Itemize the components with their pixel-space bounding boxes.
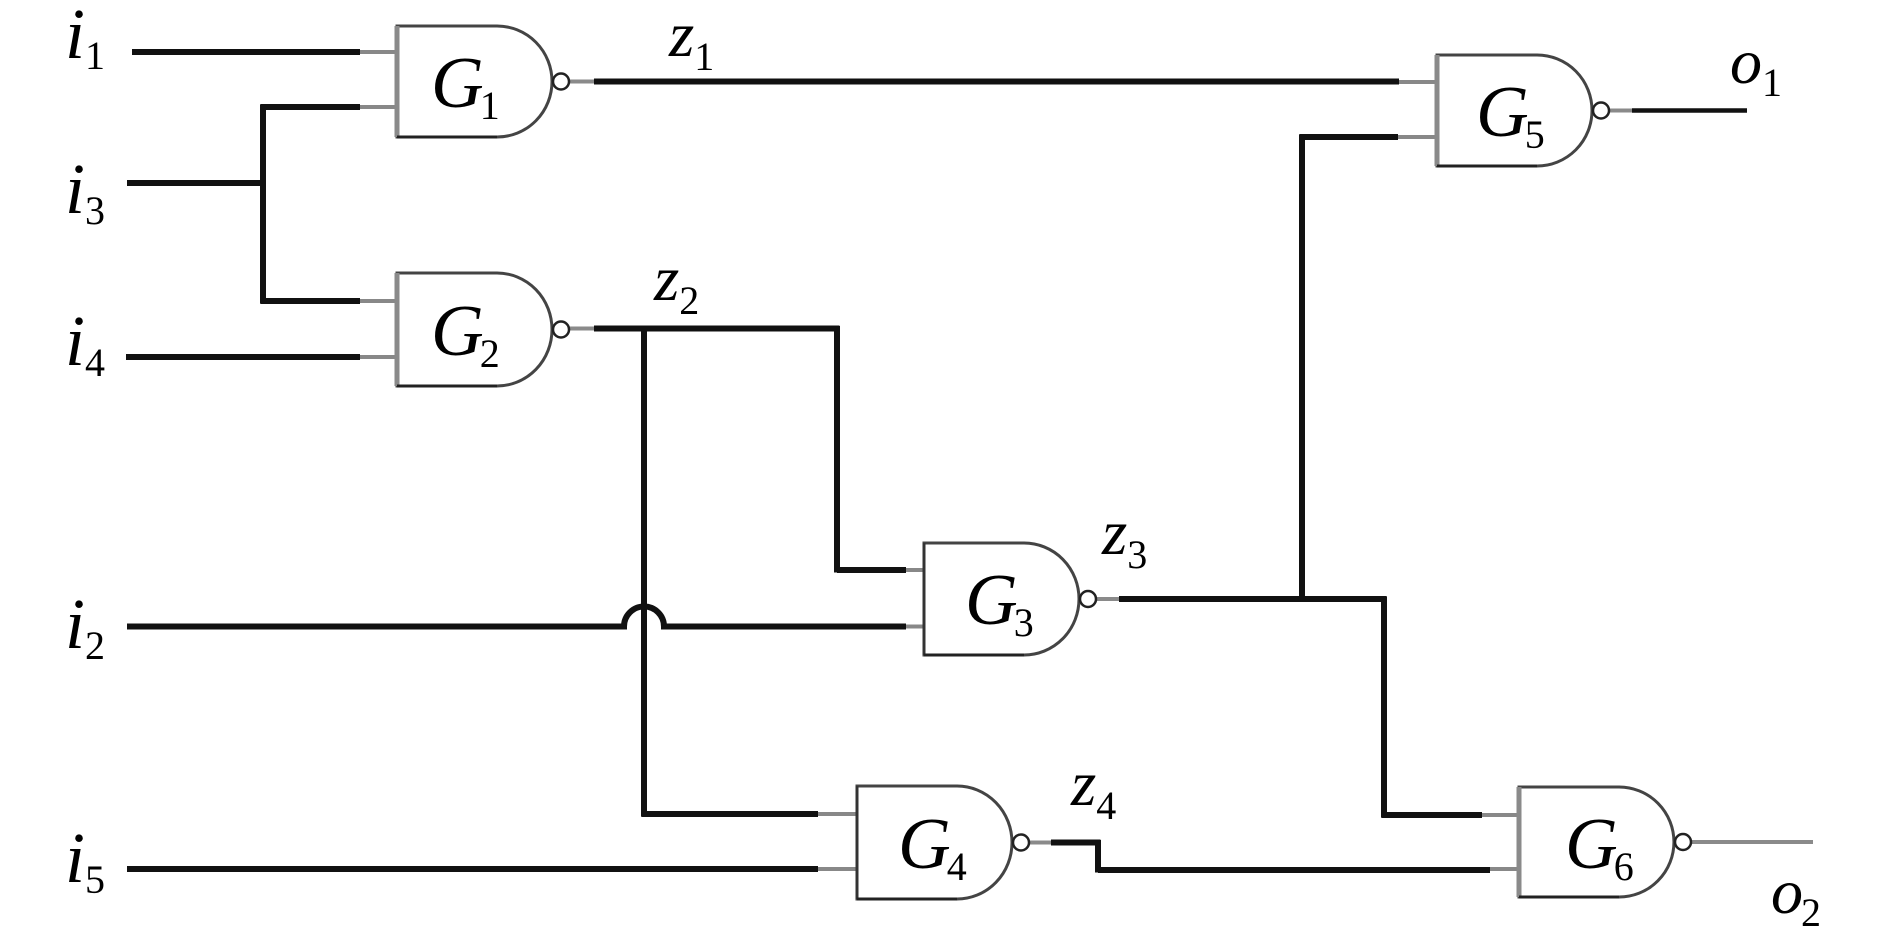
wire net i3: horizontal, vertical branch, spurs to G1 and G2 <box>127 105 360 304</box>
bubble G1 <box>553 74 569 90</box>
nand gate G2 body <box>397 273 552 386</box>
wire z4: G4 output step down to G6 input 2 <box>1029 841 1053 845</box>
nand gate G5 body <box>1437 55 1592 166</box>
wire i5 to G4 input 2 <box>127 866 818 872</box>
nand gate G4 body <box>857 786 1012 899</box>
nand gate G1 body <box>397 26 552 137</box>
nand gate G6 body <box>1519 787 1674 897</box>
bubble G3 <box>1080 591 1096 607</box>
wire o2 from G6 output <box>1691 840 1813 844</box>
bubble G4 <box>1013 835 1029 851</box>
bubble G5 <box>1593 103 1609 119</box>
wire net z2: G2 output, branch down to G4, branch to G3 input 1 <box>569 327 596 331</box>
bubble G2 <box>553 322 569 338</box>
wire o1 from G5 output <box>1610 109 1634 113</box>
wire i4 to G2 input 2 <box>126 354 360 360</box>
wire z1: G1 output to G5 input 1 <box>570 80 596 84</box>
nand gate G3 body <box>924 543 1079 655</box>
wire i2 to G3 input 2 (hop over z2 vertical) <box>127 607 906 627</box>
bubble G6 <box>1675 834 1691 850</box>
wire net z3: G3 output, up to G5 input 2, down to G6 input 1 <box>1096 597 1121 601</box>
wire i1 to G1 input 1 <box>132 49 360 55</box>
